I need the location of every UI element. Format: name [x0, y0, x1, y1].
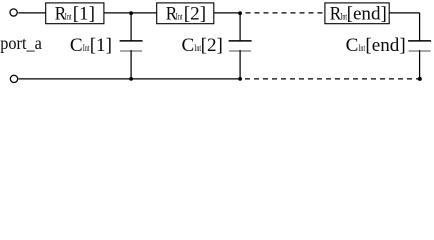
svg-text:CInt[end]: CInt[end] — [346, 35, 406, 56]
svg-text:CInt[2]: CInt[2] — [182, 35, 223, 56]
svg-text:RInt[end]: RInt[end] — [330, 4, 387, 25]
svg-text:port_a: port_a — [0, 33, 42, 53]
svg-text:RInt[1]: RInt[1] — [55, 4, 95, 25]
svg-text:CInt[1]: CInt[1] — [70, 35, 112, 56]
svg-text:RInt[2]: RInt[2] — [166, 4, 206, 25]
